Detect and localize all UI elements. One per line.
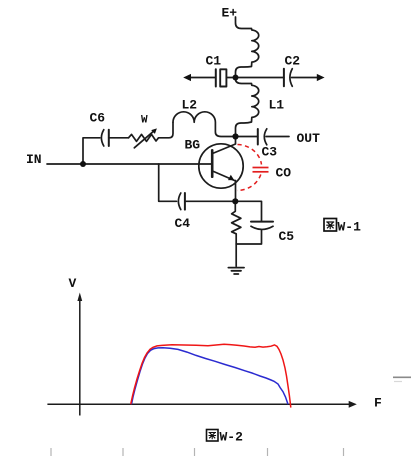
svg-text:W-2: W-2 (220, 430, 244, 445)
svg-text:BG: BG (185, 138, 201, 153)
svg-text:CO: CO (276, 166, 292, 181)
svg-text:L1: L1 (269, 98, 285, 113)
svg-text:C6: C6 (90, 111, 106, 126)
svg-text:C4: C4 (175, 216, 191, 231)
svg-text:E+: E+ (222, 6, 238, 21)
svg-text:W-1: W-1 (338, 220, 362, 235)
svg-text:L2: L2 (182, 98, 198, 113)
svg-text:C1: C1 (206, 54, 222, 69)
svg-text:F: F (374, 396, 382, 411)
svg-text:C5: C5 (279, 229, 295, 244)
svg-text:C3: C3 (262, 145, 278, 160)
svg-text:V: V (69, 276, 77, 291)
svg-text:W: W (141, 115, 148, 127)
svg-text:C2: C2 (285, 54, 301, 69)
svg-text:OUT: OUT (297, 131, 321, 146)
svg-text:IN: IN (26, 152, 42, 167)
